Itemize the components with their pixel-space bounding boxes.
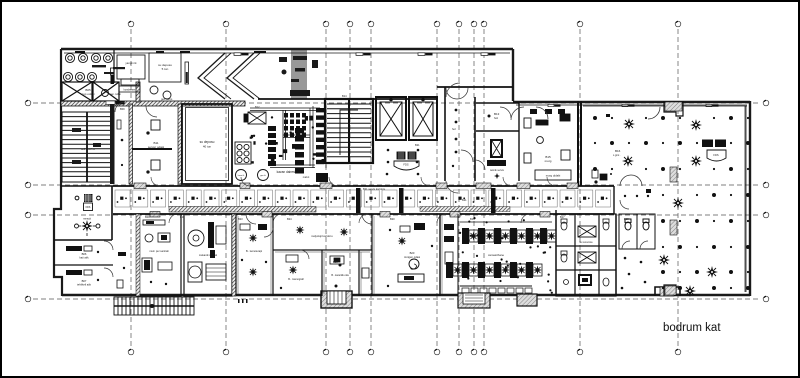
svg-text:lav sovunma: lav sovunma: [580, 242, 594, 244]
svg-text:kondenser: kondenser: [124, 89, 136, 92]
boiler misc marks: [250, 116, 325, 164]
dots area below wc: [621, 257, 647, 290]
mescit mihrab panel: [84, 194, 93, 211]
vestibule bump: [321, 285, 352, 309]
gen turbo circles: [150, 86, 173, 101]
morg tables: [524, 114, 570, 163]
corridor bottom wall: [113, 213, 614, 215]
corridor joint blocks bottom: [150, 212, 550, 218]
morg door arc: [511, 107, 524, 120]
small equipment near pipes: [279, 57, 318, 75]
small room right of corridor: [620, 195, 649, 209]
vertical grid line 1 with bubbles: [128, 21, 134, 355]
rontgen wall: [439, 214, 441, 296]
bath fixtures: [561, 219, 609, 286]
X-braced unit right: [93, 82, 119, 101]
interior wall below top-left block (y101-106 hatched): [61, 101, 245, 106]
vertical grid line 9 with bubbles: [481, 21, 487, 355]
svg-text:B20: B20: [390, 217, 395, 221]
svg-text:B19: B19: [470, 217, 475, 221]
hall walls: [445, 87, 475, 181]
elevator shaft 2: [409, 97, 437, 140]
vertical grid line 5 with bubbles: [368, 21, 374, 355]
boiler equipment column B: [295, 128, 304, 174]
right room diffuser stars: [622, 118, 718, 297]
right room B16 label: [613, 149, 621, 157]
bottom-right step: [655, 287, 680, 296]
mamografi room: [280, 266, 304, 290]
svg-text:radyoloji koridoru: radyoloji koridoru: [311, 234, 333, 238]
svg-text:B12: B12: [255, 105, 260, 109]
vertical grid line 7 with bubbles: [456, 21, 462, 355]
window ticks on top wall: [234, 53, 496, 56]
window tick pair in B05 bottom wall: [106, 101, 125, 104]
morg room right wall: [577, 101, 579, 186]
outer wall right jog (x513 y50-101): [512, 49, 514, 101]
external stair: [114, 297, 194, 315]
right room inner top line: [583, 105, 747, 107]
radyoloji stars: [296, 226, 349, 237]
strip below mescit clutter: [117, 252, 126, 288]
FDS reception desk: [394, 152, 419, 170]
svg-text:FDS: FDS: [86, 206, 91, 209]
svg-text:server odasi: server odasi: [148, 145, 165, 149]
bump mid-right 2: [517, 294, 537, 306]
vertical grid line 6 with bubbles: [434, 21, 440, 355]
corridor door posts: [356, 188, 496, 213]
right room double door: [620, 175, 642, 186]
svg-text:kati atik: kati atik: [79, 256, 89, 260]
svg-text:B26: B26: [333, 260, 338, 264]
camasirhane laundry room: [446, 217, 556, 294]
svg-text:gen. turbo: gen. turbo: [161, 98, 173, 101]
karanlik oda: [331, 264, 369, 279]
horizontal grid line E with bubbles: [25, 100, 769, 106]
svg-text:B14: B14: [342, 94, 347, 98]
mescit walls: [54, 186, 113, 240]
svg-text:B21: B21: [462, 198, 467, 202]
B13 door arc: [500, 107, 511, 118]
server room walls: [129, 104, 133, 184]
boiler manifold pipes: [250, 108, 320, 168]
svg-text:hol: hol: [494, 116, 498, 120]
B06 room: [54, 246, 113, 265]
ramp chevron 1: [198, 53, 231, 99]
wc cells right: [619, 214, 655, 249]
wall stub x137 (y82-101): [136, 82, 140, 102]
stairwell top-left treads: [62, 112, 112, 182]
svg-text:tehlikeli atik: tehlikeli atik: [77, 283, 92, 287]
corridor ceiling cells: [115, 190, 611, 207]
courtyard double door arcs: [446, 88, 468, 99]
ticks below bottom wall: [238, 299, 248, 303]
svg-text:B21: B21: [415, 143, 420, 147]
window ticks right wing: [548, 104, 719, 106]
bump mid-right 1: [458, 293, 490, 308]
horizontal grid line H with bubbles: [25, 296, 769, 302]
svg-text:mazot: mazot: [303, 176, 310, 179]
horizontal grid line G with bubbles: [25, 212, 769, 218]
svg-text:FDS: FDS: [713, 153, 718, 157]
svg-text:hava tk: hava tk: [238, 174, 244, 177]
boiler equipment column A: [268, 126, 276, 166]
right room top notch: [664, 101, 683, 116]
svg-text:FDS: FDS: [403, 163, 408, 167]
server room racks: [147, 120, 160, 173]
morg top tables: [530, 109, 565, 114]
mescit side circles top: [75, 196, 100, 200]
mud per santrali room: [136, 214, 181, 296]
electrical panel block: [487, 139, 506, 166]
right room left wall: [580, 101, 582, 186]
svg-text:teknik servis: teknik servis: [490, 169, 505, 172]
bath X tables: [578, 226, 596, 263]
svg-text:s.gmr..: s.gmr..: [613, 154, 621, 157]
svg-text:B21 servis koridoru: B21 servis koridoru: [363, 187, 386, 191]
svg-text:B.. karanlik oda: B.. karanlik oda: [331, 274, 349, 277]
outer wall top of right wing (y101 x513-750): [513, 102, 750, 105]
vertical pipe riser small: [185, 62, 189, 84]
morg dolabi box: [535, 170, 571, 180]
right room door top: [536, 107, 660, 119]
corridor door arcs: [151, 177, 556, 223]
svg-text:5 ton: 5 ton: [162, 67, 169, 71]
door arcs mid rooms: [246, 214, 372, 259]
svg-text:40 ton: 40 ton: [203, 145, 212, 149]
yangin deposu box: [117, 55, 145, 85]
radyoloji cabinets: [286, 255, 344, 264]
B07 room: [66, 270, 99, 287]
shelf bars B05: [92, 65, 125, 74]
waste bins B05 room: [63, 53, 112, 81]
door arc lobby right: [461, 150, 473, 162]
stairwell black dots: [72, 128, 101, 164]
thick wall right of stairwell: [110, 104, 115, 184]
svg-text:yangin tk: yangin tk: [125, 61, 137, 65]
svg-text:rontgen odasi: rontgen odasi: [404, 255, 421, 259]
vertical grid line B with bubbles: [675, 21, 681, 355]
su deposu 5 ton box: [149, 53, 181, 82]
svg-text:bodrum kat: bodrum kat: [663, 322, 721, 334]
svg-text:acil cikis hw: acil cikis hw: [81, 147, 95, 151]
right room small marks: [606, 114, 651, 193]
boiler serpantin coil cluster: [284, 113, 306, 137]
svg-text:B09: B09: [120, 107, 125, 111]
svg-text:B10: B10: [180, 215, 185, 219]
riser rod B05: [111, 68, 115, 84]
lobby dots: [386, 149, 420, 176]
laundry left room gear: [444, 224, 454, 278]
outer wall left with bump (x61/x54): [54, 49, 62, 296]
right room corner furniture: [592, 170, 607, 183]
svg-text:B20: B20: [410, 251, 415, 255]
svg-text:B.. kemoterapi: B.. kemoterapi: [246, 250, 263, 253]
courtyard south wall y87: [437, 86, 513, 88]
gen turbo circle B05: [102, 90, 122, 97]
mud per santrali equipment: [142, 220, 172, 285]
corridor hatched strip right: [420, 207, 510, 212]
kondenser box: [119, 86, 140, 92]
boiler X-unit: [244, 112, 266, 124]
svg-text:camasirhane: camasirhane: [488, 253, 504, 257]
bath pump black: [578, 274, 592, 286]
boiler pump skid circles: [235, 142, 251, 164]
server room door arc: [146, 106, 157, 117]
vertical grid line A with bubbles: [577, 21, 583, 355]
svg-text:hol: hol: [452, 127, 456, 131]
server room dividing line: [132, 148, 172, 150]
vertical grid line 8 with bubbles: [471, 21, 477, 355]
right room inner right line: [744, 106, 746, 292]
bath block walls: [556, 214, 616, 296]
B13 label: [488, 112, 500, 120]
mekanik santral equipment: [188, 222, 226, 282]
svg-text:B.. mamografi: B.. mamografi: [288, 278, 304, 281]
door arcs bottom-left rooms: [104, 241, 113, 277]
corridor hatched strip: [169, 207, 316, 213]
B13 hol room walls: [476, 103, 519, 181]
elevator shaft 1: [376, 97, 406, 140]
vertical grid line 4 with bubbles: [347, 21, 353, 355]
kemoterapi room walls: [236, 214, 273, 296]
laundry left room wall: [457, 214, 459, 296]
right room FDS box: [702, 140, 726, 162]
kemoterapi furniture: [240, 224, 267, 277]
radyoloji koridoru walls: [273, 214, 372, 296]
vertical grid line 2 with bubbles: [223, 21, 229, 355]
svg-text:morg dolabi: morg dolabi: [546, 174, 561, 178]
corridor right section walls: [614, 186, 616, 296]
vertical grid line 3 with bubbles: [323, 21, 329, 355]
svg-text:B17: B17: [560, 215, 565, 219]
svg-text:gen tk: gen tk: [260, 174, 265, 177]
svg-text:B09: B09: [145, 215, 150, 219]
main stair block: [325, 99, 373, 163]
svg-text:gen. turbo: gen. turbo: [110, 93, 121, 96]
water tank su deposu 40 ton: [182, 104, 232, 184]
mekanik santral room: [184, 214, 232, 296]
outer wall top (x61-513 at y50): [61, 49, 513, 53]
svg-text:mescit: mescit: [83, 217, 91, 221]
X-braced unit left: [62, 82, 92, 101]
upper wall fixtures: [75, 51, 266, 53]
hall dots: [452, 109, 458, 168]
flue pipes bundle: [291, 50, 293, 99]
svg-text:mud. per santrali: mud. per santrali: [149, 249, 169, 253]
wall stub x114 top block: [113, 50, 115, 83]
svg-text:B23: B23: [238, 217, 243, 221]
joint wall x232: [232, 214, 236, 296]
hall door arcs: [446, 83, 485, 193]
corridor joint blocks top: [134, 183, 578, 189]
svg-text:morg: morg: [545, 159, 552, 163]
star symbol elektrik: [494, 173, 500, 179]
svg-text:B16: B16: [615, 149, 621, 153]
outer wall right (x750 y101-296): [746, 101, 750, 296]
outer wall bottom (y296): [62, 294, 750, 296]
boiler big tanks: [236, 170, 269, 181]
room number labels: [120, 94, 629, 264]
right room bottom notch: [664, 285, 676, 296]
corridor top wall: [113, 185, 614, 187]
boiler top wall: [258, 98, 437, 100]
svg-text:su deposu: su deposu: [200, 140, 215, 144]
ramp chevron 2: [227, 53, 260, 99]
svg-text:B07: B07: [82, 279, 87, 283]
svg-text:B24: B24: [287, 217, 292, 221]
corridor strip dot and arc: [115, 102, 125, 166]
rontgen room equipment: [387, 223, 433, 287]
bottom zone wall inner lines: [238, 216, 442, 294]
boiler right dense strip: [316, 108, 324, 164]
right room sprinkler dot grid: [593, 116, 750, 290]
laundry right wall: [555, 210, 557, 296]
mescit prayer star: [75, 220, 101, 236]
right room joint columns: [670, 167, 677, 235]
mazot tank: [303, 173, 328, 182]
corridor strip walls x131: [130, 104, 132, 184]
svg-text:kazan dairesi: kazan dairesi: [277, 170, 296, 174]
svg-text:B18: B18: [624, 217, 629, 221]
svg-text:B06: B06: [82, 252, 87, 256]
horizontal grid line F with bubbles: [25, 182, 769, 188]
